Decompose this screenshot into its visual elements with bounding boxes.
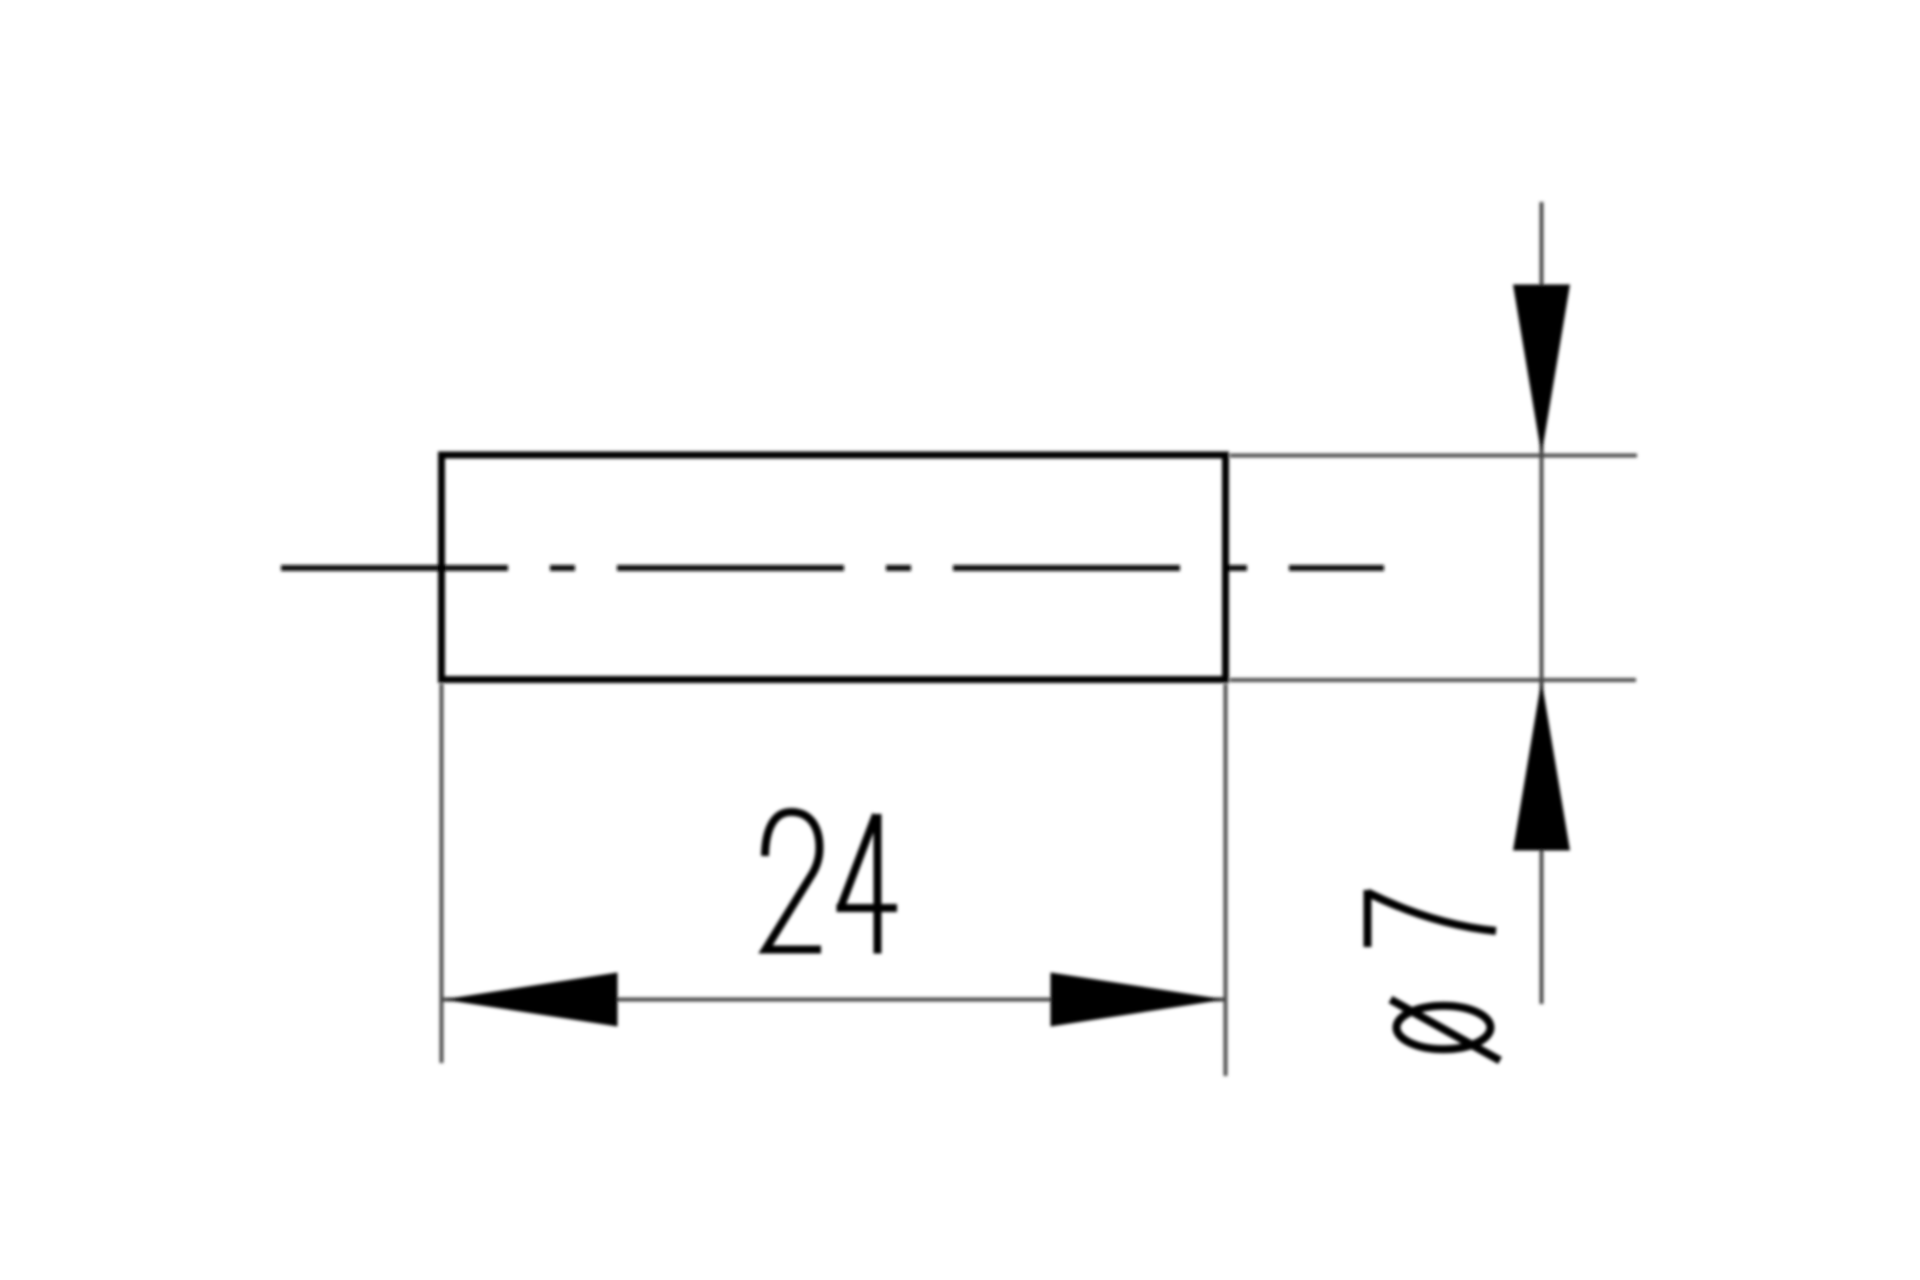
part outline rectangle: [442, 455, 1226, 680]
arrowhead right (length dim): [1051, 973, 1226, 1027]
arrowhead up (bottom of diameter dim): [1513, 680, 1570, 851]
extension line top (diameter): [1230, 454, 1637, 458]
extension line bottom (diameter): [1230, 678, 1636, 682]
arrowhead left (length dim): [443, 973, 618, 1027]
dimension line vertical (diameter 7): [1540, 202, 1544, 1004]
dimension text 24 digit 2: [765, 812, 821, 950]
dimension text 7 (rotated): [1368, 890, 1497, 947]
dimension text diameter symbol (rotated): [1391, 1000, 1501, 1061]
centerline (dash-dot axis): [281, 565, 1384, 571]
dimension text 24 digit 4: [837, 814, 898, 954]
extension line right (length): [1224, 684, 1228, 1076]
arrowhead down (top of diameter dim): [1513, 285, 1570, 456]
extension line left (length): [440, 684, 444, 1063]
dimension line horizontal (length 24): [443, 998, 1225, 1002]
